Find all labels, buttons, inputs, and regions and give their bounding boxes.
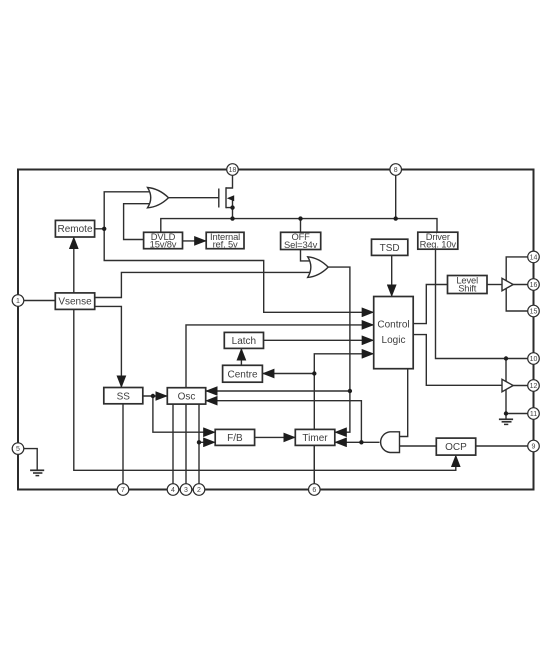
block Vsense bbox=[55, 293, 94, 310]
svg-text:SS: SS bbox=[117, 391, 131, 402]
pin 5 bbox=[12, 443, 24, 455]
svg-text:10: 10 bbox=[530, 356, 538, 363]
svg-text:Latch: Latch bbox=[232, 336, 256, 347]
pin 15 bbox=[528, 305, 540, 317]
or-gate G2 (off/vsense) bbox=[308, 257, 329, 278]
pin 4 bbox=[167, 484, 179, 496]
block TSD bbox=[372, 239, 408, 255]
wire: Control Logic bottom to AND input 1 bbox=[400, 369, 408, 437]
node: Timer riser at Centre branch bbox=[312, 371, 316, 375]
pin 2 bbox=[193, 484, 205, 496]
transistor Q1 gate and channel bars bbox=[219, 187, 226, 208]
block Centre bbox=[223, 365, 263, 382]
node: MOSFET source junction bbox=[230, 205, 234, 209]
wire: F/B output to Timer bbox=[255, 436, 296, 438]
wire: pin1 to Vsense bbox=[18, 300, 55, 302]
svg-text:8: 8 bbox=[394, 167, 398, 174]
pin 9 bbox=[528, 440, 540, 452]
svg-text:Remote: Remote bbox=[57, 224, 92, 235]
svg-text:Timer: Timer bbox=[302, 433, 328, 444]
wire: Timer bottom to pin6 (covered by box above) bbox=[313, 445, 315, 483]
wire: SS node down to F/B upper input bbox=[153, 396, 215, 432]
wire: OR1 output to gate bbox=[169, 197, 219, 199]
svg-text:Reg. 10v: Reg. 10v bbox=[420, 239, 457, 250]
svg-text:3: 3 bbox=[184, 487, 188, 494]
ground symbol at pin11 node bbox=[499, 419, 513, 424]
svg-text:ref. 5v: ref. 5v bbox=[213, 239, 238, 250]
wire: Remote output to node bbox=[95, 228, 105, 230]
buffer U3 (low side driver) bbox=[502, 379, 513, 392]
svg-text:16: 16 bbox=[530, 282, 538, 289]
node: pin10 junction bbox=[504, 356, 508, 360]
block Control Logic bbox=[374, 297, 414, 369]
transistor Q1 body arrowhead bbox=[227, 195, 234, 201]
node: rail at MOSFET source bbox=[230, 216, 234, 220]
wire: AND gate output to Timer lower input bbox=[335, 441, 380, 443]
wire: pin2 node to F/B lower input bbox=[199, 441, 215, 443]
pin 14 bbox=[528, 251, 540, 263]
pin 16 bbox=[528, 279, 540, 291]
node: pin2 riser junction bbox=[197, 440, 201, 444]
wire: internal supply rail bbox=[161, 219, 437, 233]
svg-text:15: 15 bbox=[530, 309, 538, 316]
svg-text:F/B: F/B bbox=[227, 433, 243, 444]
wire: OR1 lower input from DVLD bbox=[124, 204, 155, 240]
wire: branch to Osc upper input bbox=[206, 390, 350, 392]
svg-text:Vsense: Vsense bbox=[58, 297, 92, 308]
wire: SS to Osc arrow bbox=[143, 395, 168, 397]
pin 18 bbox=[227, 164, 239, 176]
wire: Latch to Control Logic input 3 bbox=[264, 339, 374, 341]
node: OR2 line at Osc branch bbox=[348, 389, 352, 393]
wire: SS bottom to pin7 bbox=[122, 404, 124, 484]
wire: pin2 riser through Osc bbox=[198, 404, 200, 484]
pin 7 bbox=[117, 484, 129, 496]
svg-text:11: 11 bbox=[530, 411, 537, 418]
block Timer bbox=[295, 429, 335, 445]
wire: pin8 down to internal rail bbox=[395, 170, 397, 219]
and-gate G3 (ocp, mirrored left) bbox=[381, 432, 400, 453]
wire: OFF box bottom to OR2 upper input bbox=[301, 250, 313, 261]
svg-text:9: 9 bbox=[532, 444, 536, 451]
pin 10 bbox=[528, 353, 540, 365]
wire: Control Logic out2 to buffer 2 bbox=[413, 335, 502, 386]
svg-text:7: 7 bbox=[121, 487, 125, 494]
wire: pin5 to ground bbox=[18, 449, 37, 471]
wire: Control Logic out1 to Level Shift bbox=[413, 285, 447, 324]
wire: MOSFET source to rail bbox=[226, 208, 233, 219]
wire: pin4 riser bbox=[172, 404, 174, 484]
pin 3 bbox=[180, 484, 192, 496]
block OFF Sel=34v bbox=[281, 231, 321, 250]
svg-text:Control: Control bbox=[377, 320, 409, 331]
wire: ground stem at pin11 node bbox=[505, 414, 507, 420]
wire: Remote node down to Control Logic input 1 bbox=[104, 229, 374, 312]
wire: Vsense bottom to sense rail into OCP bbox=[74, 309, 456, 470]
block F/B bbox=[215, 429, 254, 445]
wire: OR1 upper input from Remote node bbox=[104, 192, 155, 229]
node: pin11 junction bbox=[504, 411, 508, 415]
block Internal ref. 5v bbox=[206, 231, 244, 250]
wire: Driver Reg bottom to pin10 bbox=[436, 249, 534, 358]
block OCP bbox=[436, 438, 475, 455]
pin 11 bbox=[528, 408, 540, 420]
wire: buffer1 rail pin14 to pin15 bbox=[506, 257, 533, 311]
arrow DVLD to Internal ref bbox=[183, 240, 207, 242]
pin 6 bbox=[309, 484, 321, 496]
svg-text:OCP: OCP bbox=[445, 442, 467, 453]
wire: OCP to pin9 bbox=[476, 445, 534, 447]
wire: buffer1 output to pin16 bbox=[513, 284, 533, 286]
wire: pin18 to MOSFET drain bbox=[226, 170, 233, 189]
svg-text:14: 14 bbox=[530, 254, 538, 261]
wire: branch to Centre input bbox=[262, 373, 314, 375]
wire: Timer top to Control Logic input 4 bbox=[314, 354, 373, 484]
svg-text:15v/8v: 15v/8v bbox=[150, 239, 177, 250]
node: Remote output junction bbox=[102, 227, 106, 231]
block Latch bbox=[224, 332, 263, 348]
svg-text:Centre: Centre bbox=[227, 369, 257, 380]
svg-text:2: 2 bbox=[197, 487, 201, 494]
pin 1 bbox=[12, 295, 24, 307]
wire: OFF box top riser to rail bbox=[300, 219, 302, 233]
node: rail at pin8 bbox=[394, 216, 398, 220]
block Osc bbox=[167, 388, 205, 404]
or-gate G1 (drive gate) bbox=[148, 188, 169, 208]
svg-text:Logic: Logic bbox=[382, 335, 406, 346]
wire: Centre to Latch arrow bbox=[240, 348, 242, 365]
node: rail at OFF riser bbox=[298, 216, 302, 220]
wire: Vsense to Remote arrow bbox=[73, 237, 75, 293]
wire: Vsense upper output to OR2 lower input bbox=[95, 272, 312, 297]
block Level Shift bbox=[448, 274, 488, 293]
wire: AND output node up to Osc lower input bbox=[206, 401, 362, 443]
outer IC border bbox=[18, 170, 534, 490]
svg-text:TSD: TSD bbox=[380, 243, 400, 254]
svg-text:5: 5 bbox=[16, 446, 20, 453]
wire: OCP to AND input 2 bbox=[400, 445, 437, 447]
buffer U2 (high side driver) bbox=[502, 278, 513, 291]
wire: OR2 output down to Timer upper input bbox=[328, 267, 350, 432]
block SS bbox=[104, 388, 143, 404]
svg-text:1: 1 bbox=[16, 298, 20, 305]
node: AND output junction bbox=[359, 440, 363, 444]
svg-text:Shift: Shift bbox=[458, 282, 477, 293]
svg-text:Sel=34v: Sel=34v bbox=[284, 239, 318, 250]
svg-text:18: 18 bbox=[229, 167, 237, 174]
block Driver Reg. 10v bbox=[418, 231, 458, 250]
wire: rail from pin10 node down to pin11 and ground bbox=[506, 359, 534, 414]
svg-text:4: 4 bbox=[171, 487, 175, 494]
node: SS output junction bbox=[151, 394, 155, 398]
wire: MOSFET body arrow stem bbox=[229, 198, 233, 207]
block DVLD 15v/8v bbox=[144, 231, 183, 250]
svg-text:Osc: Osc bbox=[178, 392, 196, 403]
wire: Level Shift to buffer 1 bbox=[487, 284, 502, 286]
pin 12 bbox=[528, 380, 540, 392]
svg-text:6: 6 bbox=[312, 487, 316, 494]
wire: TSD down to Control Logic bbox=[391, 255, 393, 296]
pin 8 bbox=[390, 164, 402, 176]
ground symbol at pin5 bbox=[30, 470, 44, 475]
wire: Vsense lower output down to SS bbox=[95, 306, 122, 387]
wire: buffer2 output to pin12 bbox=[513, 385, 533, 387]
block Remote bbox=[55, 220, 94, 237]
svg-text:12: 12 bbox=[530, 383, 538, 390]
wire: Osc top to Control Logic input 2 bbox=[186, 325, 374, 484]
